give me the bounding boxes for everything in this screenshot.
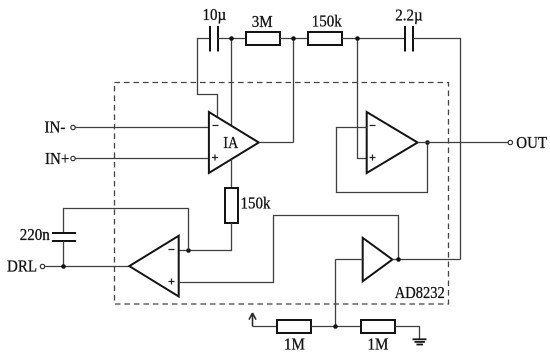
svg-text:150k: 150k [241,195,271,213]
wire IN- to IA inverting input [75,127,209,129]
svg-text:IN+: IN+ [45,150,69,168]
svg-text:IA: IA [223,134,239,152]
capacitor C2 10u [210,26,218,52]
node dot A2 output [425,140,430,145]
dashed box AD8232 boundary [115,83,449,305]
svg-text:150k: 150k [312,13,342,31]
op-amp U3 driven lead amplifier [129,236,178,297]
node dot 10u/3M junction [229,36,234,41]
svg-text:AD8232: AD8232 [395,284,445,302]
svg-text:1M: 1M [284,336,305,354]
wire 220n bottom to DRL rail [63,241,65,267]
wire A2 output to OUT [418,142,509,144]
terminal OUT [508,140,512,144]
wire 2.2u right then down to A3 output rail [413,39,461,260]
pin minus A1 [169,249,175,251]
op-amp U2 buffer [367,112,418,173]
wire 10u to R 3M [218,38,246,40]
svg-text:DRL: DRL [7,258,37,276]
svg-text:220n: 220n [20,226,50,244]
node dot divider mid [333,324,338,329]
node dot 3M/150k junction [291,36,296,41]
wire 1M left to 1M right [311,326,361,328]
wire top rail left jog down to IA top edge [198,39,218,118]
terminal DRL [40,264,44,268]
node dot A3 output [396,257,401,262]
wire A1 plus input to A3 output [179,216,399,283]
wire IN+ to IA non-inverting input [75,158,209,160]
arrow supply reference [249,313,256,327]
wire IA internal node to 150k mid resistor [231,159,233,188]
terminal IN+ [71,156,75,160]
svg-text:10µ: 10µ [203,6,227,24]
wire divider mid riser [335,260,337,327]
node dot A1 inverting junction [186,248,191,253]
op-amp U4 reference buffer [363,238,393,281]
wire A1 inverting node up and left to 220n top [64,209,189,251]
wire A2 feedback loop output to inverting input [337,128,428,193]
wire A3 input from divider mid [336,259,363,261]
resistor R 150k mid [225,188,238,223]
capacitor C1 2.2u [405,26,413,52]
svg-text:1M: 1M [368,336,389,354]
capacitor C3 220n [52,233,76,241]
pin minus A2 [370,125,376,127]
terminal IN- [71,125,75,129]
resistor R 1M left [277,320,311,333]
svg-text:IN-: IN- [45,119,66,137]
svg-text:OUT: OUT [516,134,547,152]
wire 150k mid bottom to A1 inverting input [179,223,232,251]
wire arrow to 1M left [253,326,278,328]
wire down from 150k/2.2u node to A2 plus input [358,39,367,159]
resistor R 150k top [308,32,342,45]
wire IA output right [259,142,294,144]
op-amp U1 IA instrumentation amplifier [209,112,259,173]
wire 150k to 2.2u [342,38,404,40]
node dot 150k/2.2u junction [355,36,360,41]
pin plus IA [212,155,218,161]
wire A3 output to 2.2u riser [392,259,460,261]
resistor R 3M [246,32,280,45]
svg-text:3M: 3M [252,13,273,31]
ground [413,338,427,345]
pin plus A2 [370,155,376,161]
svg-text:2.2µ: 2.2µ [395,7,422,25]
wire 3M to 150k [280,38,308,40]
node dot DRL/220n junction [61,264,66,269]
wire down from 10u/3M node to IA top edge [231,39,233,126]
resistor R 1M right [361,320,395,333]
wire down from 3M/150k node to IA output [293,39,295,143]
wire DRL to A1 output [45,266,129,268]
wire 1M right to ground [395,327,420,339]
pin plus A1 [169,279,175,285]
pin minus IA [213,125,219,127]
